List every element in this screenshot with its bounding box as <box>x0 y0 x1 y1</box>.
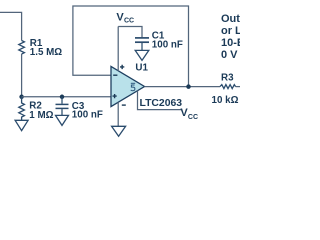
wire VCC rail to C1 <box>118 27 142 38</box>
svg-text:Output: Output <box>221 13 240 25</box>
ground below R2 <box>15 120 28 130</box>
node A junction dot <box>19 95 24 100</box>
node B junction dot (C3 tap) <box>60 95 65 100</box>
svg-text:U1: U1 <box>135 62 148 73</box>
svg-text:R3: R3 <box>221 73 234 84</box>
svg-text:0 V to: 0 V to <box>221 49 240 61</box>
svg-text:LTC2063: LTC2063 <box>140 98 183 109</box>
capacitor C1 <box>135 38 149 51</box>
feedback wire (- input, top rail, down to output node) <box>73 6 189 87</box>
output junction dot <box>186 84 191 89</box>
V- supply pin <box>117 102 119 126</box>
svg-text:or LTC2063: or LTC2063 <box>221 25 240 37</box>
ground below C3 <box>56 115 69 125</box>
svg-text:100 nF: 100 nF <box>72 109 103 120</box>
svg-text:10-Bit: 10-Bit <box>221 37 240 49</box>
wire R3 to right edge <box>236 86 240 88</box>
wire input from left edge <box>0 12 22 40</box>
wire R1 to node A <box>21 54 23 97</box>
SHDN pin mark <box>131 85 135 91</box>
resistor R1 <box>19 41 25 55</box>
ground below C1 <box>135 50 149 60</box>
V+ plus sign <box>120 65 124 69</box>
svg-text:1.5 MΩ: 1.5 MΩ <box>30 47 63 58</box>
resistor R3 <box>220 85 236 89</box>
op-amp U1 <box>111 66 145 106</box>
svg-text:10 kΩ: 10 kΩ <box>212 95 239 106</box>
op-amp + input sign <box>113 94 117 98</box>
V- minus sign <box>122 104 126 106</box>
annotation text (clipped at right edge) <box>221 13 280 61</box>
resistor R2 <box>19 97 25 121</box>
svg-text:1 MΩ: 1 MΩ <box>29 110 53 121</box>
V+ supply pin <box>117 27 119 72</box>
svg-text:CC: CC <box>124 18 134 25</box>
svg-text:100 nF: 100 nF <box>152 40 183 51</box>
svg-text:CC: CC <box>188 114 198 121</box>
capacitor C3 <box>56 97 69 116</box>
SHDN wire to VCC <box>138 91 183 110</box>
wire node A to op-amp + input <box>22 96 111 98</box>
op-amp - input sign <box>113 74 117 76</box>
output wire <box>145 86 221 88</box>
ground below op-amp <box>112 126 126 136</box>
